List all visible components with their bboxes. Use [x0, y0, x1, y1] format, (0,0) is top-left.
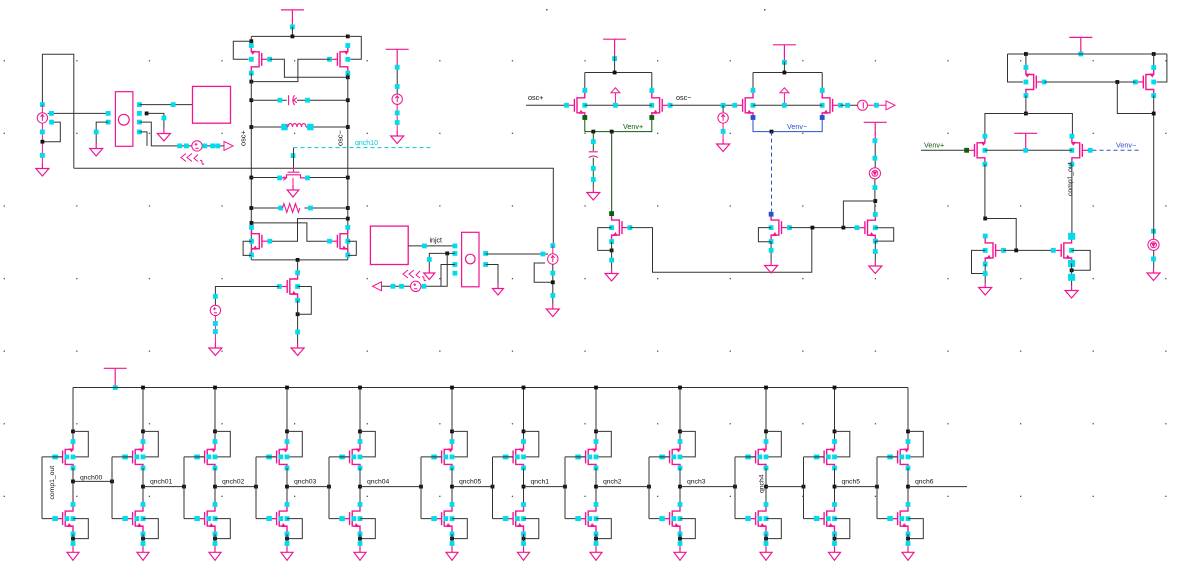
wire qnch04 output — [360, 486, 421, 488]
svg-text:qnch6: qnch6 — [915, 478, 934, 485]
pin I3 top — [550, 243, 555, 248]
wire vdd feedback loop (isrc top to long bias rail) — [42, 54, 73, 168]
pin gnd stub injct — [427, 257, 432, 262]
output port arrow (bias) — [224, 141, 233, 150]
pin M19 bottom (large) — [1068, 260, 1075, 267]
wire I2 to ground — [396, 104, 398, 131]
wire cell2 nmos bulk loop — [143, 519, 158, 539]
wire cell12 rail drop — [907, 388, 909, 444]
nmos N1 (quench cell 1) — [52, 502, 75, 536]
pins output chain right — [874, 103, 879, 108]
capacitor C1 — [289, 95, 297, 105]
ground right of B1 — [157, 129, 170, 142]
ground cell12 — [902, 546, 914, 560]
wire env2 top rail — [753, 72, 822, 74]
wire I7 leads — [1153, 227, 1155, 268]
junction varactor row right — [346, 176, 350, 180]
wire cell2 source to ground — [142, 534, 144, 546]
nmos N2 (quench cell 2) — [122, 502, 145, 536]
wire cell12 pmos bulk loop — [908, 431, 923, 457]
ground stub injct — [424, 268, 435, 280]
wire cell3 nmos bulk loop — [215, 519, 230, 539]
wire cell3 rail drop — [214, 388, 216, 444]
junction I6 branch — [873, 199, 877, 203]
wire cell3 input bus — [183, 457, 185, 519]
junction rail cell10 — [764, 386, 768, 390]
wire qnch5 output — [835, 486, 878, 488]
nmos N12 (quench cell 12) — [887, 502, 910, 536]
junction cell7 input tap — [491, 485, 495, 489]
wire cell4 nmos bulk loop — [287, 519, 302, 539]
wire right bulk tie loop — [348, 36, 362, 59]
voltage source V1 — [192, 141, 202, 151]
junction cell7 source — [522, 537, 526, 541]
wire M12 source to ground — [770, 242, 772, 261]
wire I3 bulk loop — [534, 263, 553, 282]
junction cell11 top loop — [833, 430, 837, 434]
pins I3 bottom — [550, 271, 555, 298]
ground cell11 — [829, 546, 841, 560]
wire env2 right output — [841, 104, 858, 106]
pin injct wire — [422, 244, 427, 249]
wire M15 drain down — [1153, 96, 1155, 228]
ground below B1 left stub — [90, 144, 103, 157]
pins ac chain — [391, 284, 427, 289]
wire qnch05 output — [452, 486, 493, 488]
svg-text:qnch01: qnch01 — [150, 478, 173, 485]
wire M6 bulk loop — [298, 287, 312, 315]
svg-text:Venv−: Venv− — [1116, 141, 1136, 150]
wire cell9 input bus — [648, 457, 650, 519]
pins resistor R1 — [278, 206, 313, 211]
wire V2 to ground — [214, 316, 216, 343]
junction cell11 output — [833, 485, 837, 489]
wire cell7 nmos bulk loop — [524, 519, 539, 539]
ground cell6 — [446, 546, 458, 560]
pin cell4 pmos gate wire — [267, 455, 283, 460]
nmos M13 (env2 mirror) — [855, 212, 878, 244]
ac decoration chevrons near V3 — [403, 270, 426, 281]
junction cell2 input tap — [110, 480, 114, 484]
junction cell8 top loop — [594, 430, 598, 434]
wire qnch03 output — [287, 486, 329, 488]
pin on B1-S1 wire — [171, 102, 176, 107]
junction cell6 source — [450, 537, 454, 541]
junction cell5 top loop — [358, 430, 362, 434]
junction I0 source node — [41, 140, 45, 144]
ground cell5 — [354, 546, 366, 560]
pin cell5 nmos gate wire — [340, 516, 356, 521]
junction cell5 source — [358, 537, 362, 541]
nmos M12 (env2 rectifier) — [769, 212, 792, 244]
wire cell7 source to ground — [523, 534, 525, 546]
wire cell1 nmos gate lead — [42, 518, 63, 520]
pin cell10 source chain — [764, 541, 769, 546]
svg-text:Venv+: Venv+ — [623, 122, 643, 131]
wire env1 top rail — [585, 72, 652, 74]
svg-text:qnch04: qnch04 — [367, 478, 390, 485]
pmos P7 (quench cell 7) — [503, 439, 526, 470]
pin below I6 — [873, 185, 878, 190]
wire I4 to ground — [722, 105, 724, 112]
pin cell5 source chain — [358, 541, 363, 546]
svg-text:qnch3: qnch3 — [687, 478, 706, 485]
vdd symbol (env2 mirror) — [864, 122, 887, 139]
junction rail cell6 — [450, 386, 454, 390]
pin cell7 nmos gate wire — [504, 516, 520, 521]
wire I3 top lead — [552, 246, 554, 254]
wire B2 out2 to ground — [486, 265, 498, 284]
pmos M1 (osc left) — [249, 43, 272, 75]
wire Venv- dashed vertical — [771, 132, 773, 212]
junction M19 source — [1070, 268, 1074, 272]
junction cell7 top loop — [522, 430, 526, 434]
ground below I2 — [391, 131, 404, 144]
wire cell1 input bus — [41, 457, 43, 519]
junction cap row left — [249, 98, 253, 102]
wire cell7 input bus — [492, 457, 494, 519]
wire osc- net — [670, 104, 735, 106]
junction cell1 source — [71, 537, 75, 541]
nmos M5 (osc right) — [327, 225, 350, 257]
wire env2 bulk bus — [753, 104, 822, 106]
wire qnch00 output — [73, 480, 112, 482]
wire qnch10 dashed net — [294, 147, 432, 149]
junction rail cell8 — [594, 386, 598, 390]
ground below varactor — [287, 185, 299, 197]
current source I7 (comparator tail) — [1148, 239, 1159, 250]
ground below B2 out2 — [493, 284, 504, 296]
vdd symbol (comparator) — [1069, 37, 1092, 54]
wire M4 gate cross (left drain to right gate) — [252, 223, 330, 241]
wire left rail upper — [250, 36, 252, 45]
junction right rail at nmos — [346, 217, 350, 221]
junction cell10 source — [764, 537, 768, 541]
junction res row left — [249, 206, 253, 210]
pin cell2 pmos gate wire — [123, 455, 139, 460]
wire varactor right — [306, 177, 348, 179]
pmos M15 (comp mirror right) — [1133, 65, 1156, 98]
ground cell9 — [674, 546, 686, 560]
wire qnch01 output — [143, 486, 184, 488]
junction cell3 top loop — [213, 430, 217, 434]
wire cell2 nmos gate lead — [112, 518, 133, 520]
pin B1 gnd stub — [94, 130, 99, 135]
junction rail cell7 — [522, 386, 526, 390]
wire varactor left — [251, 177, 281, 179]
junction cell4 output — [285, 485, 289, 489]
wire cell5 nmos gate lead — [329, 518, 350, 520]
pin cell6 source chain — [450, 541, 455, 546]
pin cell10 nmos gate wire — [746, 516, 762, 521]
pin above C2 — [591, 139, 596, 144]
junction cell4 source — [285, 537, 289, 541]
wire Venv+ vertical — [611, 132, 613, 214]
pin cell11 pmos gate wire — [815, 455, 831, 460]
junction res row right — [346, 206, 350, 210]
junction env2 top rail — [783, 71, 787, 75]
svg-text:Venv−: Venv− — [787, 122, 807, 131]
wire M6 gate bias — [215, 287, 279, 306]
pmos P1 (quench cell 1) — [52, 439, 75, 470]
junction cross wire on right rail — [346, 75, 350, 79]
junction cell3 source — [213, 537, 217, 541]
wire M16 drain down — [984, 164, 986, 218]
pmos P12 (quench cell 12) — [887, 439, 910, 470]
svg-text:comp1_out: comp1_out — [1067, 162, 1074, 196]
junction rail cell4 — [285, 386, 289, 390]
pin cell3 nmos gate wire — [195, 516, 211, 521]
wire cell8 mid vertical — [595, 468, 597, 505]
ground cell10 — [760, 546, 772, 560]
vdd symbol (env stage 2) — [773, 45, 796, 62]
wire M14 drain down — [1025, 96, 1027, 114]
pin bulk bus env2 — [782, 103, 787, 108]
ground below M13 — [869, 261, 882, 274]
junction ind row left — [249, 125, 253, 129]
current source I4 — [718, 113, 728, 123]
wire cell1 rail drop — [72, 388, 74, 444]
ground below M6 — [291, 343, 304, 356]
junction cell6 output — [450, 485, 454, 489]
wire cell5 input bus — [328, 457, 330, 519]
pmos P11 (quench cell 11) — [814, 439, 837, 470]
inductor L1 — [288, 124, 306, 127]
pin cell12 source chain — [906, 541, 911, 546]
ground cell4 — [281, 546, 293, 560]
nmos M11 (env2 right) — [820, 88, 843, 120]
junction cell8 source — [594, 537, 598, 541]
junction M16 drain branch — [983, 217, 987, 221]
pin cell3 pmos gate wire — [195, 455, 211, 460]
pin cell11 source chain — [832, 541, 837, 546]
wire cell12 nmos gate lead — [877, 518, 898, 520]
pin below I7 — [1151, 257, 1156, 262]
junction cell11 input tap — [802, 485, 806, 489]
wire cell9 mid vertical — [679, 468, 681, 505]
svg-text:osc+: osc+ — [528, 93, 543, 102]
wire qnch3 output — [680, 486, 735, 488]
square block S1 — [193, 86, 231, 123]
pin cell1 source chain — [71, 541, 76, 546]
wire M13 source to ground — [874, 241, 876, 261]
wire cell6 nmos gate lead — [421, 518, 442, 520]
pin cell8 pmos gate wire — [576, 455, 592, 460]
vdd symbol (comp diff bulks) — [1014, 133, 1037, 150]
wire cell5 pmos gate lead — [329, 456, 350, 458]
junction ind row right — [346, 125, 350, 129]
wire M5 bulk loop — [348, 241, 357, 255]
wire B2 out1 to I3 — [486, 253, 548, 255]
ac source V3 — [411, 281, 421, 291]
pin M19 top (large) — [1068, 233, 1075, 240]
wire osc tail bus — [252, 259, 348, 261]
ground below I4 — [717, 139, 730, 152]
current source I3 (injection) — [548, 254, 558, 264]
junction cell12 output — [906, 485, 910, 489]
svg-text:osc−: osc− — [336, 130, 345, 146]
wire I5 to port — [868, 104, 887, 106]
wire cell11 nmos bulk loop — [835, 519, 850, 539]
wire res right — [305, 207, 348, 209]
junction cell2 output — [141, 485, 145, 489]
junction mirror bus 1 — [811, 226, 815, 230]
wire cell10 source to ground — [765, 534, 767, 546]
pin cell8 source chain — [594, 541, 599, 546]
wire quench top rail — [73, 387, 908, 389]
pins B1 right — [137, 102, 142, 134]
wire cell6 pmos bulk loop — [452, 431, 467, 457]
pin cell11 nmos gate wire — [815, 516, 831, 521]
wire cell9 source to ground — [679, 534, 681, 546]
ac decoration chevrons near V1 — [181, 154, 204, 165]
svg-text:qnch1: qnch1 — [531, 478, 550, 485]
wire cell5 mid vertical — [359, 468, 361, 505]
junction tail bus — [296, 258, 300, 262]
nmos M7 (env1 left) — [564, 88, 587, 120]
wire comp top rail — [1008, 53, 1167, 55]
wire cell4 mid vertical — [286, 468, 288, 505]
ground below I7 — [1147, 268, 1160, 281]
source I5 (output) — [858, 100, 868, 110]
pin cell9 pmos gate wire — [660, 455, 676, 460]
pin M6 source chain — [295, 330, 300, 335]
wire cell11 nmos gate lead — [804, 518, 825, 520]
junction M15 drain — [1152, 112, 1156, 116]
wire M19 source to ground — [1071, 263, 1073, 285]
pins inductor L1 — [281, 124, 313, 131]
nmos M10 (env2 left) — [732, 88, 755, 120]
junction cell12 top loop — [906, 430, 910, 434]
junction cell10 top loop — [764, 430, 768, 434]
wire M17 drain down (comp1_out) — [1071, 164, 1073, 236]
wire B2 pin2 left — [429, 253, 455, 268]
wire M18 bulk loop — [972, 250, 986, 273]
wire Venv+ input comp — [921, 149, 967, 151]
wire cell9 nmos gate lead — [649, 518, 670, 520]
wire cell2 pmos gate lead — [112, 456, 133, 458]
voltage source V2 (tail bias) — [210, 305, 220, 315]
pin vdd stem env2 — [782, 60, 787, 65]
wire cell2 input bus — [111, 457, 113, 519]
wire cap right — [297, 99, 348, 101]
wire cell4 pmos bulk loop — [287, 431, 302, 457]
pins B2 left — [453, 244, 458, 276]
pin above I7 — [1151, 229, 1156, 234]
wire cell5 source to ground — [359, 534, 361, 546]
wire cell8 nmos gate lead — [565, 518, 586, 520]
port arrow (injection input) — [373, 282, 382, 291]
ground cell1 — [67, 546, 79, 560]
ground cell7 — [518, 546, 530, 560]
junction cell3 output — [213, 485, 217, 489]
ground below M12 — [765, 261, 778, 274]
junction cell9 input tap — [647, 485, 651, 489]
pmos P2 (quench cell 2) — [122, 439, 145, 470]
wire mirror bus M12-M13 — [789, 227, 857, 229]
ground below M18 — [979, 283, 992, 296]
resistor R1 — [283, 204, 300, 213]
wire oscillator top rail — [251, 35, 347, 37]
wire cell1 mid vertical — [72, 468, 74, 505]
svg-text:osc−: osc− — [676, 93, 691, 102]
junction cell2 source — [141, 537, 145, 541]
nmos N4 (quench cell 4) — [266, 502, 289, 536]
wire B1 out2 to right ground — [147, 113, 164, 128]
wire bottom mirror gate bus — [1004, 249, 1054, 251]
nmos N6 (quench cell 6) — [431, 502, 454, 536]
wire M1 gate to M2 drain (cross couple) — [270, 59, 348, 77]
pin isrc I4 tap — [721, 103, 726, 108]
wire vdd to I6 — [874, 139, 876, 167]
pin B2 out1 wire — [541, 252, 546, 257]
wire Venv- dashed comp — [1093, 149, 1142, 151]
pins below C2 — [591, 166, 596, 182]
wire cell9 nmos bulk loop — [680, 519, 695, 539]
wire vdd to top rail — [291, 27, 293, 37]
svg-text:qnch00: qnch00 — [80, 475, 103, 482]
wire cell3 source to ground — [214, 534, 216, 546]
pin cell4 source chain — [285, 541, 290, 546]
junction cell10 input tap — [733, 485, 737, 489]
junction comp rail right — [1152, 52, 1156, 56]
wire M9 source to ground — [611, 242, 613, 269]
pmos P5 (quench cell 5) — [339, 439, 362, 470]
wire cell8 source to ground — [595, 534, 597, 546]
svg-text:injct: injct — [430, 238, 443, 245]
junction top rail centre — [291, 35, 295, 39]
wire cell8 rail drop — [595, 388, 597, 444]
nmos M18 (comp mirror bot left) — [983, 234, 1006, 267]
wire M15 source drop — [1153, 54, 1155, 69]
pin vdd stem osc — [290, 25, 295, 30]
wire Venv+ to cap C2 — [592, 132, 594, 151]
pin cell12 nmos gate wire — [888, 516, 904, 521]
svg-text:qnch05: qnch05 — [459, 478, 482, 485]
junction on B1 out2 — [145, 112, 149, 116]
wire osc right rail — [347, 73, 349, 260]
junction env1 top rail — [613, 71, 617, 75]
pin cell4 nmos gate wire — [267, 516, 283, 521]
nmos N5 (quench cell 5) — [339, 502, 362, 536]
junction mirror bus 2 — [842, 226, 846, 230]
nmos M6 (osc tail) — [277, 270, 300, 302]
wire M14 source drop — [1025, 54, 1027, 69]
nmos varactor M3 — [281, 168, 306, 181]
pmos P3 (quench cell 3) — [194, 439, 217, 470]
junction cap row right — [346, 98, 350, 102]
nmos M8 (env1 right) — [649, 88, 672, 120]
pmos M14 (comp mirror left) — [1024, 65, 1047, 98]
wire env1 rail drop right — [651, 73, 653, 92]
wire cell10 input bus — [734, 457, 736, 519]
wire I0 to bias block B1 — [48, 112, 109, 114]
nmos N7 (quench cell 7) — [503, 502, 526, 536]
junction cell4 input tap — [254, 485, 258, 489]
wire ac chain — [381, 253, 447, 286]
pin M12 source — [769, 248, 774, 253]
wire vdd to I2 — [396, 66, 398, 94]
pins V2 bottom — [213, 321, 218, 334]
svg-text:Venv+: Venv+ — [924, 141, 944, 150]
wire I3 source down — [552, 264, 554, 304]
wire cell7 nmos gate lead — [493, 518, 514, 520]
wire osc+ input — [526, 104, 567, 106]
wire cell10 pmos bulk loop — [766, 431, 781, 457]
wire cell7 pmos gate lead — [493, 456, 514, 458]
junction rail cell5 — [358, 386, 362, 390]
wire I6 down — [874, 179, 876, 214]
